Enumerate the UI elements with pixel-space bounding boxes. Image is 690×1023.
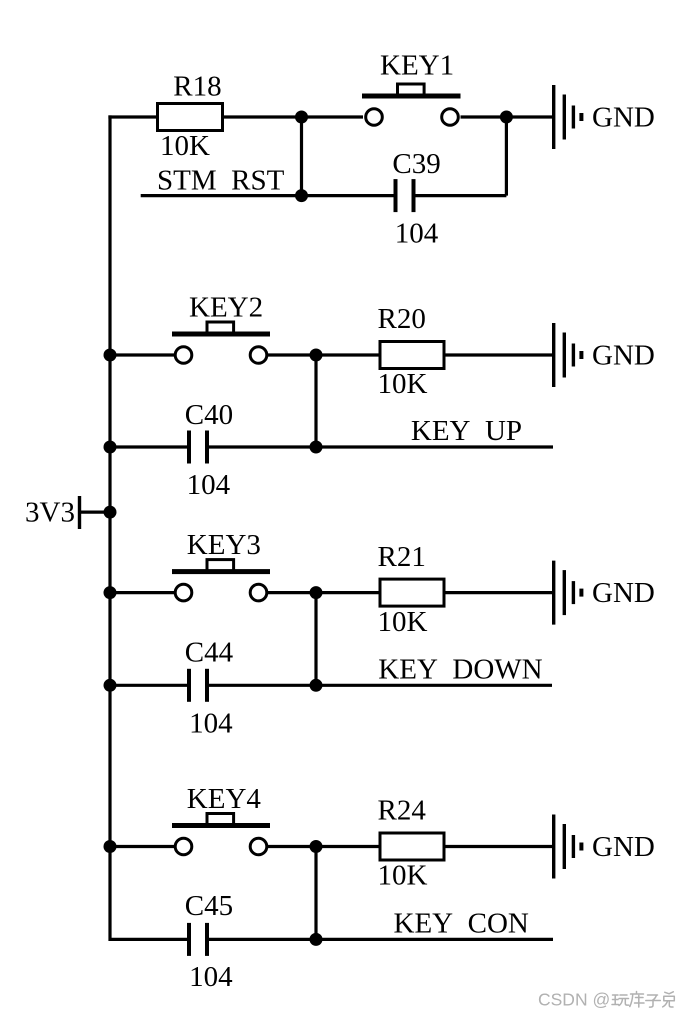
ground symbol GND (row 3) bbox=[554, 561, 582, 625]
wire: node down to KEY_CON rail bbox=[314, 847, 317, 940]
wire: node to KEY1 pin 1 bbox=[302, 115, 364, 118]
svg-text:KEY UP: KEY UP bbox=[411, 415, 522, 447]
wire: node down to KEY_DOWN rail bbox=[314, 593, 317, 686]
push button KEY2: pin 2 bbox=[250, 347, 267, 364]
push button KEY4: pin 2 bbox=[250, 838, 267, 855]
capacitor C40 bbox=[187, 431, 209, 464]
wire: KEY3 pin 2 to node KEY_DOWN bbox=[267, 591, 316, 594]
push button KEY4: pin 1 bbox=[175, 838, 192, 855]
wire: bus to C44 pin 1 bbox=[110, 684, 187, 687]
svg-text:C44: C44 bbox=[185, 636, 234, 668]
svg-text:10K: 10K bbox=[160, 130, 210, 162]
wire: bus corner to C45 pin 1 bbox=[110, 938, 187, 941]
push button KEY1: pin 1 bbox=[366, 109, 383, 126]
svg-text:STM RST: STM RST bbox=[157, 164, 285, 196]
svg-text:GND: GND bbox=[592, 831, 655, 863]
svg-text:KEY4: KEY4 bbox=[187, 783, 262, 815]
wire: R21 pin 2 to ground bbox=[444, 591, 554, 594]
svg-text:KEY DOWN: KEY DOWN bbox=[378, 653, 542, 685]
wire: C39 pin 2 to right riser bbox=[416, 194, 507, 197]
push button KEY3: button cap bbox=[207, 560, 234, 571]
svg-text:GND: GND bbox=[592, 102, 655, 134]
wire: node down to STM_RST rail bbox=[300, 117, 303, 196]
svg-text:104: 104 bbox=[189, 961, 233, 993]
svg-text:104: 104 bbox=[187, 469, 231, 501]
wire: KEY1 pin 2 to ground node bbox=[461, 115, 507, 118]
svg-text:10K: 10K bbox=[378, 860, 428, 892]
resistor R18 bbox=[158, 104, 223, 131]
junction: STM_RST rail bbox=[295, 189, 308, 202]
svg-text:R21: R21 bbox=[378, 541, 426, 573]
wire: R20 pin 2 to ground bbox=[444, 353, 554, 356]
wire: bus to R18 pin 1 bbox=[108, 115, 157, 118]
wire: KEY2 pin 2 to node KEY_UP bbox=[267, 353, 316, 356]
svg-text:3V3: 3V3 bbox=[25, 497, 75, 529]
push button KEY3: actuator bar bbox=[172, 569, 270, 574]
wire: net KEY_UP stub bbox=[316, 445, 553, 448]
junction: KEY2 / R20 / C40 node bbox=[310, 349, 323, 362]
junction: KEY3 / R21 / C44 node bbox=[310, 586, 323, 599]
svg-text:C40: C40 bbox=[185, 399, 233, 431]
push button KEY4: actuator bar bbox=[172, 823, 270, 828]
capacitor C45 bbox=[187, 923, 209, 956]
svg-text:KEY3: KEY3 bbox=[187, 529, 261, 561]
junction: KEY1 / C39 / GND node bbox=[500, 111, 513, 124]
junction: bus to KEY4 bbox=[104, 840, 117, 853]
push button KEY1: button cap bbox=[398, 84, 425, 95]
junction: KEY_DOWN rail bbox=[310, 679, 323, 692]
svg-text:GND: GND bbox=[592, 340, 655, 372]
ground symbol GND (row 4) bbox=[554, 815, 582, 879]
wire: C45 pin 2 to node bbox=[209, 938, 316, 941]
push button KEY1: actuator bar bbox=[362, 94, 461, 99]
wire: node to R20 pin 1 bbox=[316, 353, 380, 356]
svg-text:104: 104 bbox=[189, 707, 233, 739]
svg-text:C45: C45 bbox=[185, 890, 233, 922]
svg-text:KEY CON: KEY CON bbox=[394, 908, 529, 940]
wire: node to ground bbox=[506, 115, 553, 118]
watermark: hanzi 玩库子弟 drawn as paths bbox=[612, 992, 674, 1008]
svg-text:104: 104 bbox=[395, 218, 439, 250]
wire: bus to KEY3 pin 1 bbox=[110, 591, 175, 594]
ground symbol GND (row 2) bbox=[554, 323, 582, 387]
wire: net KEY_DOWN stub bbox=[316, 684, 552, 687]
junction: 3V3 on bus bbox=[104, 506, 117, 519]
push button KEY1: pin 2 bbox=[442, 109, 459, 126]
wire: right riser up to KEY1 pin 2 bbox=[505, 117, 508, 196]
svg-text:10K: 10K bbox=[378, 606, 428, 638]
wire: node to R21 pin 1 bbox=[316, 591, 380, 594]
wire: 3V3 to bus bbox=[80, 510, 111, 513]
junction: bus to KEY3 bbox=[104, 586, 117, 599]
push button KEY3: pin 1 bbox=[175, 584, 192, 601]
wire: C44 pin 2 to node bbox=[209, 684, 316, 687]
junction: bus to KEY2 bbox=[104, 349, 117, 362]
push button KEY2: actuator bar bbox=[172, 332, 270, 337]
wire: node to R24 pin 1 bbox=[316, 845, 380, 848]
junction: KEY_UP rail bbox=[310, 441, 323, 454]
wire: net KEY_CON stub bbox=[316, 938, 553, 941]
svg-text:10K: 10K bbox=[378, 368, 428, 400]
junction: KEY4 / R24 / C45 node bbox=[310, 840, 323, 853]
push button KEY3: pin 2 bbox=[250, 584, 267, 601]
capacitor C44 bbox=[187, 669, 209, 702]
power symbol 3V3 bbox=[78, 496, 81, 529]
junction: R18 / KEY1 / C39 node bbox=[295, 111, 308, 124]
wire: bus to C40 pin 1 bbox=[110, 445, 187, 448]
svg-text:R18: R18 bbox=[173, 71, 221, 103]
junction: bus to C44 bbox=[104, 679, 117, 692]
svg-text:GND: GND bbox=[592, 577, 655, 609]
svg-text:R24: R24 bbox=[378, 795, 427, 827]
wire: KEY4 pin 2 to node KEY_CON bbox=[267, 845, 316, 848]
svg-text:R20: R20 bbox=[378, 303, 426, 335]
resistor R21 bbox=[380, 579, 444, 606]
resistor R20 bbox=[380, 342, 444, 369]
junction: KEY_CON rail bbox=[310, 933, 323, 946]
svg-text:KEY2: KEY2 bbox=[189, 291, 263, 323]
wire: C40 pin 2 to node bbox=[209, 445, 316, 448]
svg-text:KEY1: KEY1 bbox=[380, 50, 454, 82]
wire: R18 pin 2 to node STM_RST bbox=[223, 115, 302, 118]
wire: STM_RST rail to C39 pin 1 bbox=[141, 194, 394, 197]
push button KEY2: pin 1 bbox=[175, 347, 192, 364]
capacitor C39 bbox=[394, 179, 416, 212]
wire: node down to KEY_UP rail bbox=[314, 355, 317, 447]
junction: bus to C40 bbox=[104, 441, 117, 454]
wire: R24 pin 2 to ground bbox=[444, 845, 554, 848]
svg-text:CSDN @: CSDN @ bbox=[538, 990, 610, 1010]
push button KEY2: button cap bbox=[207, 322, 234, 333]
svg-text:C39: C39 bbox=[392, 148, 440, 180]
resistor R24 bbox=[380, 833, 444, 860]
wire: bus to KEY2 pin 1 bbox=[110, 353, 175, 356]
push button KEY4: button cap bbox=[207, 814, 234, 825]
wire: 3V3 vertical bus bbox=[108, 115, 111, 941]
ground symbol GND (row 1) bbox=[554, 85, 582, 149]
wire: bus to KEY4 pin 1 bbox=[110, 845, 175, 848]
